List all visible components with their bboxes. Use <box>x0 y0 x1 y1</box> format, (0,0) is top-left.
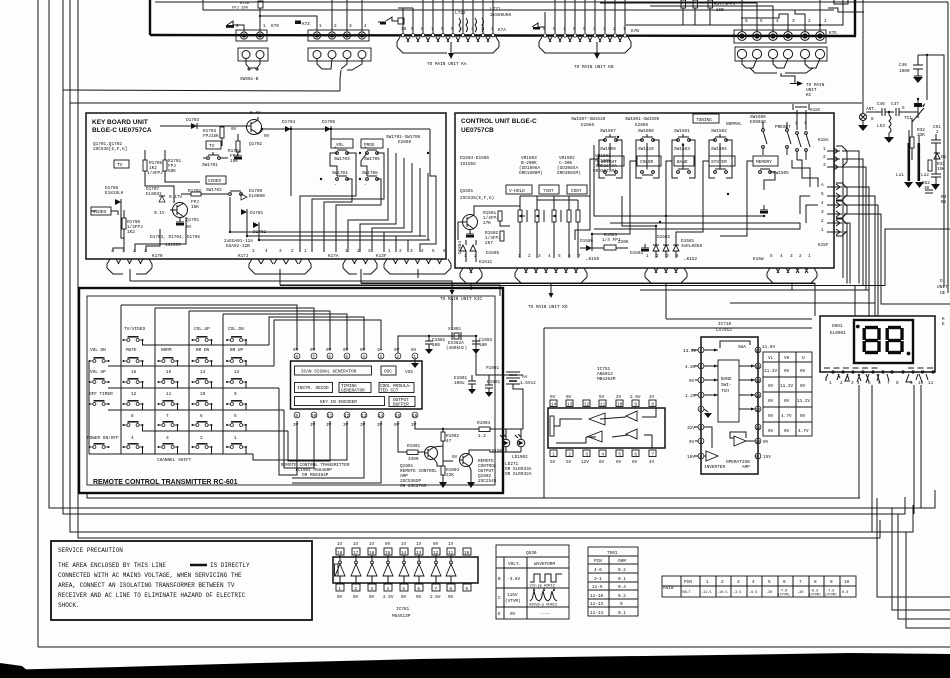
svg-text:K15W: K15W <box>753 257 764 262</box>
wire pin2 to oscillator rail <box>398 336 476 353</box>
svg-text:9: 9 <box>830 580 833 585</box>
control internal wires <box>458 140 818 262</box>
svg-text:L53: L53 <box>877 124 885 129</box>
svg-text:2SC536(E,F,G): 2SC536(E,F,G) <box>460 196 494 201</box>
svg-text:1V: 1V <box>353 542 359 547</box>
svg-text:SW1704: SW1704 <box>332 171 348 176</box>
svg-text:4: 4 <box>548 254 551 259</box>
label IC781 M54513P <box>392 607 411 619</box>
wire K15A staircase pin1 <box>842 151 859 284</box>
switch key3 <box>158 436 179 454</box>
svg-text:0V: 0V <box>394 423 400 428</box>
resistor R1502 <box>485 231 504 246</box>
svg-text:D1504-D1506: D1504-D1506 <box>460 156 489 161</box>
svg-text:INVERTER: INVERTER <box>704 465 725 470</box>
staircase wire 1 <box>877 498 950 597</box>
wire battery to LED rail <box>513 384 523 429</box>
svg-text:7: 7 <box>578 254 581 259</box>
wire bus y290 <box>640 290 869 316</box>
staircase wire 2 <box>892 508 950 610</box>
svg-text:0.4: 0.4 <box>618 585 626 590</box>
svg-text:1: 1 <box>319 24 322 29</box>
label K7Z <box>295 21 310 28</box>
svg-text:5: 5 <box>345 355 348 360</box>
IC751 box <box>548 408 665 448</box>
svg-text:0.0: 0.0 <box>842 591 848 595</box>
svg-text:-: - <box>364 183 367 188</box>
svg-text:VH: VH <box>784 356 790 361</box>
switch SW1506 preset <box>762 122 791 155</box>
connector K7B wires from top <box>545 0 625 33</box>
svg-text:E2866: E2866 <box>581 123 595 128</box>
svg-text:1V: 1V <box>369 542 375 547</box>
IC751 input rect <box>550 416 554 436</box>
svg-text:27K: 27K <box>483 221 491 226</box>
svg-text:5: 5 <box>558 254 561 259</box>
svg-text:11: 11 <box>928 381 934 386</box>
IC710 pin 9 <box>755 453 771 460</box>
switch key4 <box>123 436 144 454</box>
switch key5 <box>226 414 247 431</box>
svg-text:SW1509: SW1509 <box>600 147 616 152</box>
svg-text:-3.5: -3.5 <box>733 591 741 595</box>
IC1901 block OUTPUT BUFFER <box>389 397 415 408</box>
connector K70 mating half <box>238 48 268 68</box>
svg-text:C48: C48 <box>899 63 907 68</box>
svg-text:11.2V: 11.2V <box>797 399 811 404</box>
svg-text:UE0757CB: UE0757CB <box>461 127 494 134</box>
svg-text:BUFFER: BUFFER <box>393 403 409 408</box>
switch VOL UP <box>89 370 110 384</box>
svg-text:D1701: D1701 <box>250 211 264 216</box>
svg-text:14: 14 <box>551 403 557 408</box>
svg-text:-11.5: -11.5 <box>701 591 712 595</box>
svg-text:MEMORY: MEMORY <box>756 160 772 165</box>
ground Q1902 <box>467 482 475 488</box>
svg-text:6V: 6V <box>616 460 622 465</box>
svg-text:A510: A510 <box>663 586 674 591</box>
wire upper thin rail 2 <box>203 0 834 10</box>
svg-text:5: 5 <box>768 580 771 585</box>
svg-text:7: 7 <box>312 355 315 360</box>
keyboard bottom pins K13F <box>384 249 451 278</box>
box VOL <box>331 139 353 148</box>
svg-text:K15A: K15A <box>818 138 829 143</box>
svg-text:4: 4 <box>111 249 114 254</box>
svg-text:1: 1 <box>338 587 341 592</box>
svg-text:4: 4 <box>386 587 389 592</box>
svg-text:SHOCK.: SHOCK. <box>58 602 80 609</box>
staircase wire 4 <box>906 532 950 628</box>
svg-text:6: 6 <box>573 27 576 32</box>
wire bus y285 <box>280 229 950 286</box>
wire keyboard to main unit <box>130 281 452 290</box>
svg-text:11-14: 11-14 <box>590 611 604 616</box>
wire crystal top <box>451 296 453 330</box>
box COLOR <box>637 156 661 166</box>
svg-text:GRD307XM): GRD307XM) <box>593 169 617 174</box>
svg-text:VL: VL <box>768 356 774 361</box>
svg-text:2: 2 <box>133 249 136 254</box>
wire IC pin14 drop <box>292 421 381 483</box>
wire TC1 to rail <box>908 111 918 113</box>
svg-text:5V: 5V <box>566 460 572 465</box>
LED LD1901 <box>489 429 510 454</box>
wire display pin4 drop <box>858 385 860 498</box>
svg-text:Lu1: Lu1 <box>896 173 904 178</box>
svg-text:11-10: 11-10 <box>590 594 604 599</box>
svg-text:SERVICE PRECAUTION: SERVICE PRECAUTION <box>58 547 123 554</box>
svg-text:OR SLR932A: OR SLR932A <box>505 472 532 477</box>
ground Lu1 <box>904 182 913 188</box>
svg-text:3: 3 <box>410 249 413 254</box>
svg-text:10: 10 <box>464 551 470 556</box>
control pins K152 <box>645 254 698 319</box>
svg-text:15: 15 <box>166 370 172 375</box>
resistor ladder extra <box>567 196 580 258</box>
svg-text:MB4204M: MB4204M <box>597 377 616 382</box>
wire K15F staircase pin2 <box>844 223 850 284</box>
svg-text:4: 4 <box>699 394 702 399</box>
svg-text:SW1501-SW1505: SW1501-SW1505 <box>625 117 660 122</box>
IC section border top <box>544 327 812 329</box>
table T501 <box>588 547 638 616</box>
IC1901 top pin 3 <box>377 348 384 360</box>
svg-text:100u: 100u <box>454 381 465 386</box>
wire row3 to IC pin9 <box>279 388 297 475</box>
svg-text:11: 11 <box>327 414 333 419</box>
IC710 box <box>701 337 758 474</box>
scan black notch <box>0 663 28 671</box>
svg-text:1: 1 <box>144 249 147 254</box>
svg-text:5V: 5V <box>550 395 556 400</box>
trimmer TC1 <box>904 98 925 122</box>
key matrix row wire 2 <box>108 365 274 367</box>
key matrix row wire 4 <box>108 409 284 411</box>
svg-text:K7Z: K7Z <box>302 22 310 27</box>
svg-text:5: 5 <box>699 408 702 413</box>
svg-text:8: 8 <box>295 355 298 360</box>
svg-text:8: 8 <box>131 414 134 419</box>
svg-text:1: 1 <box>823 147 826 152</box>
svg-text:3: 3 <box>823 163 826 168</box>
svg-text:AREA, CONNECT AN ISOLATING TRA: AREA, CONNECT AN ISOLATING TRANSFORMER B… <box>58 582 235 589</box>
ground C53 <box>931 184 940 190</box>
svg-text:11-13: 11-13 <box>590 602 604 607</box>
coil L721 2x560UHK <box>475 7 511 32</box>
svg-text:3V: 3V <box>310 423 316 428</box>
svg-text:1: 1 <box>345 249 348 254</box>
switch SW1706 <box>362 171 378 188</box>
svg-text:2.5V: 2.5V <box>430 595 441 600</box>
svg-text:5: 5 <box>432 249 435 254</box>
IC1901 top pin 5 <box>343 348 350 360</box>
IC710 pin 8 <box>687 453 704 460</box>
svg-text:TV/VIDEO: TV/VIDEO <box>124 327 145 332</box>
voltage table VL VH U <box>763 352 812 436</box>
arrow to main unit KIC <box>450 290 455 295</box>
svg-text:SW1503: SW1503 <box>674 147 690 152</box>
svg-text:NORM: NORM <box>161 348 172 353</box>
IC1901 top pin 4 <box>360 348 367 360</box>
label LD271 SLR933A <box>505 462 532 477</box>
label D1703 D1704 D1705 1S1555 <box>150 235 200 248</box>
svg-text:SW1702: SW1702 <box>206 188 222 193</box>
crystal X1901 <box>446 327 467 351</box>
svg-text:TO MAIN UNIT KIC: TO MAIN UNIT KIC <box>440 297 483 302</box>
switch key8 <box>123 414 144 431</box>
IC1901 top pin 1 <box>411 348 418 360</box>
svg-text:3: 3 <box>737 580 740 585</box>
transistor Q1701 <box>170 203 200 231</box>
IC710 pin 10 <box>755 438 769 445</box>
svg-text:2SC2545: 2SC2545 <box>478 479 497 484</box>
svg-text:-3.6V: -3.6V <box>507 577 521 582</box>
svg-text:15K: 15K <box>230 159 238 164</box>
switch POWER ON/OFF <box>87 436 119 449</box>
svg-text:1: 1 <box>491 27 494 32</box>
resistor R32 <box>910 118 925 160</box>
capacitor C1902 <box>425 335 446 354</box>
IC751 top pins <box>550 400 656 408</box>
svg-text:0.1V: 0.1V <box>154 211 165 216</box>
svg-text:PIN: PIN <box>684 580 692 585</box>
wire col4 to IC pin5 <box>223 314 347 350</box>
svg-text:E2866: E2866 <box>635 123 649 128</box>
svg-text:ANT.: ANT. <box>866 107 877 112</box>
box BAND <box>674 156 694 166</box>
svg-text:3V: 3V <box>411 423 417 428</box>
wire top horizontal y90 <box>63 90 340 91</box>
svg-text:1: 1 <box>824 19 827 24</box>
wire row1 to IC pin4 <box>269 317 364 350</box>
svg-text:0V: 0V <box>452 455 458 460</box>
seven segment digit 8 right <box>887 328 902 353</box>
junction dots keyboard <box>229 128 429 241</box>
label SW1701-SW1706 E2866 <box>386 135 421 145</box>
IC1901 bottom pin 14 <box>377 412 384 428</box>
svg-text:0V: 0V <box>800 369 806 374</box>
switch key11 <box>158 392 179 410</box>
IC1901 bottom pin 11 <box>326 412 333 428</box>
svg-text:3: 3 <box>792 19 795 24</box>
wire Q1901 emitter <box>434 459 443 466</box>
LED LD1902 <box>512 429 528 460</box>
svg-text:-30: -30 <box>766 591 772 595</box>
arrow to main unit KO <box>549 293 554 298</box>
svg-text:TV: TV <box>209 144 215 149</box>
svg-text:2: 2 <box>823 155 826 160</box>
wire K15A staircase pin2 <box>842 159 863 286</box>
coil Lu2 <box>918 143 930 181</box>
svg-text:TINT: TINT <box>543 189 554 194</box>
svg-text:2K7: 2K7 <box>485 241 493 246</box>
capacitor C52 <box>922 181 933 193</box>
coil L722 <box>455 11 468 32</box>
ground near K70 <box>226 21 244 31</box>
label IC710 LA7913 <box>716 322 732 333</box>
resistors R17/4FPJ 1KB <box>681 0 735 25</box>
svg-text:UE: UE <box>940 291 946 296</box>
svg-text:UNIT: UNIT <box>937 285 948 290</box>
svg-text:R1901: R1901 <box>407 444 421 449</box>
svg-text:7: 7 <box>699 440 702 445</box>
svg-text:1: 1 <box>623 27 626 32</box>
svg-text:0V: 0V <box>264 134 270 139</box>
switch key13 <box>226 370 247 388</box>
svg-text:0.1: 0.1 <box>618 611 626 616</box>
connector K7E <box>734 30 837 43</box>
svg-text:1: 1 <box>829 381 832 386</box>
svg-text:1V: 1V <box>337 542 343 547</box>
IC1901 block CODE MODULATED CCT <box>379 383 414 394</box>
svg-text:7: 7 <box>563 27 566 32</box>
svg-text:3: 3 <box>471 27 474 32</box>
diode D1704 <box>282 120 296 132</box>
svg-text:0V: 0V <box>337 595 343 600</box>
svg-text:13: 13 <box>361 414 367 419</box>
svg-text:0V: 0V <box>343 348 349 353</box>
svg-text:E: E <box>942 322 945 327</box>
svg-text:33K: 33K <box>917 133 925 138</box>
ground under R1704 <box>234 156 242 160</box>
label D1504-D1506 IS1555 <box>460 156 489 167</box>
IC710 pin 16 <box>755 345 776 354</box>
key matrix row wire 1 <box>142 344 269 346</box>
svg-text:0V: 0V <box>800 384 806 389</box>
pins K15A right edge <box>823 146 847 170</box>
svg-text:9: 9 <box>543 27 546 32</box>
svg-text:13: 13 <box>755 394 761 399</box>
wire display pin6 drop <box>871 385 873 532</box>
IC1901 bottom pin 10 <box>310 412 317 428</box>
svg-text:-10.5: -10.5 <box>717 591 728 595</box>
svg-text:3: 3 <box>279 249 282 254</box>
svg-text:MUTE: MUTE <box>126 348 137 353</box>
svg-text:WAVEFORM: WAVEFORM <box>534 562 555 567</box>
switch OFF TIMER <box>89 392 114 406</box>
svg-text:7: 7 <box>887 381 890 386</box>
svg-text:SW1706: SW1706 <box>362 171 378 176</box>
svg-text:0.2: 0.2 <box>618 594 626 599</box>
seven segment digit 8 left <box>864 328 879 353</box>
IC781 inverter gates <box>335 561 456 576</box>
svg-text:14: 14 <box>755 379 761 384</box>
wire K152 long drop <box>666 318 812 320</box>
svg-text:0V: 0V <box>293 348 299 353</box>
svg-text:6: 6 <box>443 249 446 254</box>
diode D1502b <box>663 240 669 258</box>
svg-text:IS DIRECTLY: IS DIRECTLY <box>210 562 250 569</box>
svg-text:0.1: 0.1 <box>618 577 626 582</box>
svg-text:0V: 0V <box>448 595 454 600</box>
svg-text:0V: 0V <box>510 612 516 617</box>
svg-text:12: 12 <box>344 414 350 419</box>
svg-text:AA: AA <box>522 375 528 380</box>
svg-text:115V: 115V <box>507 593 518 598</box>
wire bus y303 <box>730 303 875 316</box>
key matrix column bus 2 <box>154 308 156 454</box>
svg-text:PIN: PIN <box>594 559 602 564</box>
resistor R1503 <box>592 233 629 250</box>
box TUNING <box>693 114 719 123</box>
svg-text:16: 16 <box>755 349 761 354</box>
switch SW1505 <box>759 169 790 176</box>
battery AA 1.5Vx2 <box>506 372 536 386</box>
svg-text:K15F: K15F <box>818 243 829 248</box>
svg-text:6: 6 <box>634 453 637 458</box>
svg-text:2: 2 <box>656 254 659 259</box>
svg-text:R746: R746 <box>240 2 250 6</box>
svg-text:3300: 3300 <box>408 457 419 462</box>
scan black band <box>0 653 950 678</box>
wire border 5 <box>78 0 880 538</box>
svg-text:6: 6 <box>417 587 420 592</box>
svg-text:11: 11 <box>600 403 606 408</box>
transistor Q1901 <box>425 447 438 460</box>
svg-text:P1901: P1901 <box>486 366 500 371</box>
svg-text:2: 2 <box>808 19 811 24</box>
svg-text:6V: 6V <box>632 460 638 465</box>
svg-text:8: 8 <box>421 27 424 32</box>
svg-text:2V: 2V <box>649 395 655 400</box>
IC751 top pin labels <box>550 395 655 400</box>
svg-text:VSS: VSS <box>405 370 413 375</box>
wire bottom full rule <box>38 646 950 648</box>
svg-text:11: 11 <box>755 426 761 431</box>
svg-text:11.2V: 11.2V <box>764 369 778 374</box>
svg-text:C47: C47 <box>891 102 899 107</box>
IC1901 top pin 8 <box>293 348 300 360</box>
svg-text:3V: 3V <box>293 423 299 428</box>
svg-text:15: 15 <box>395 414 401 419</box>
resistor R1902 <box>441 428 460 446</box>
svg-text:6: 6 <box>200 414 203 419</box>
service precaution box <box>51 541 312 620</box>
display seven segment window <box>854 320 913 363</box>
connector K7A wires from top <box>398 0 493 33</box>
svg-text:1: 1 <box>252 249 255 254</box>
label IC751 AN6912 MB4204M <box>597 367 616 382</box>
svg-text:5: 5 <box>821 192 824 197</box>
box BRIGHT <box>598 156 624 166</box>
svg-text:0V: 0V <box>784 399 790 404</box>
svg-text:11: 11 <box>166 392 172 397</box>
capacitor C48 <box>899 55 923 76</box>
svg-text:GRD1898M): GRD1898M) <box>519 171 543 176</box>
svg-text:U: U <box>802 356 805 361</box>
resistor R33 <box>928 160 945 172</box>
svg-text:3-1: 3-1 <box>594 577 602 582</box>
pins K15F right edge <box>818 183 847 248</box>
svg-text:9: 9 <box>295 414 298 419</box>
wire display feed <box>854 286 856 317</box>
svg-text:VOLT.: VOLT. <box>508 562 521 567</box>
svg-text:2.5V: 2.5V <box>383 595 394 600</box>
ground under Q1701 <box>176 218 184 226</box>
svg-text:(VTVM): (VTVM) <box>778 593 790 597</box>
key matrix column bus 4 <box>222 314 224 454</box>
switch key9 <box>226 392 247 410</box>
capacitor C51 <box>931 125 941 152</box>
wire border 2 <box>49 0 935 508</box>
IC710 pin 4 <box>685 392 704 399</box>
transistor Q1501 <box>461 210 478 230</box>
wire K15F staircase pinA <box>844 187 869 290</box>
svg-text:L722: L722 <box>455 11 466 16</box>
wire pin15 to R1901 <box>398 421 407 452</box>
label R34 B2 clipped <box>941 195 947 205</box>
